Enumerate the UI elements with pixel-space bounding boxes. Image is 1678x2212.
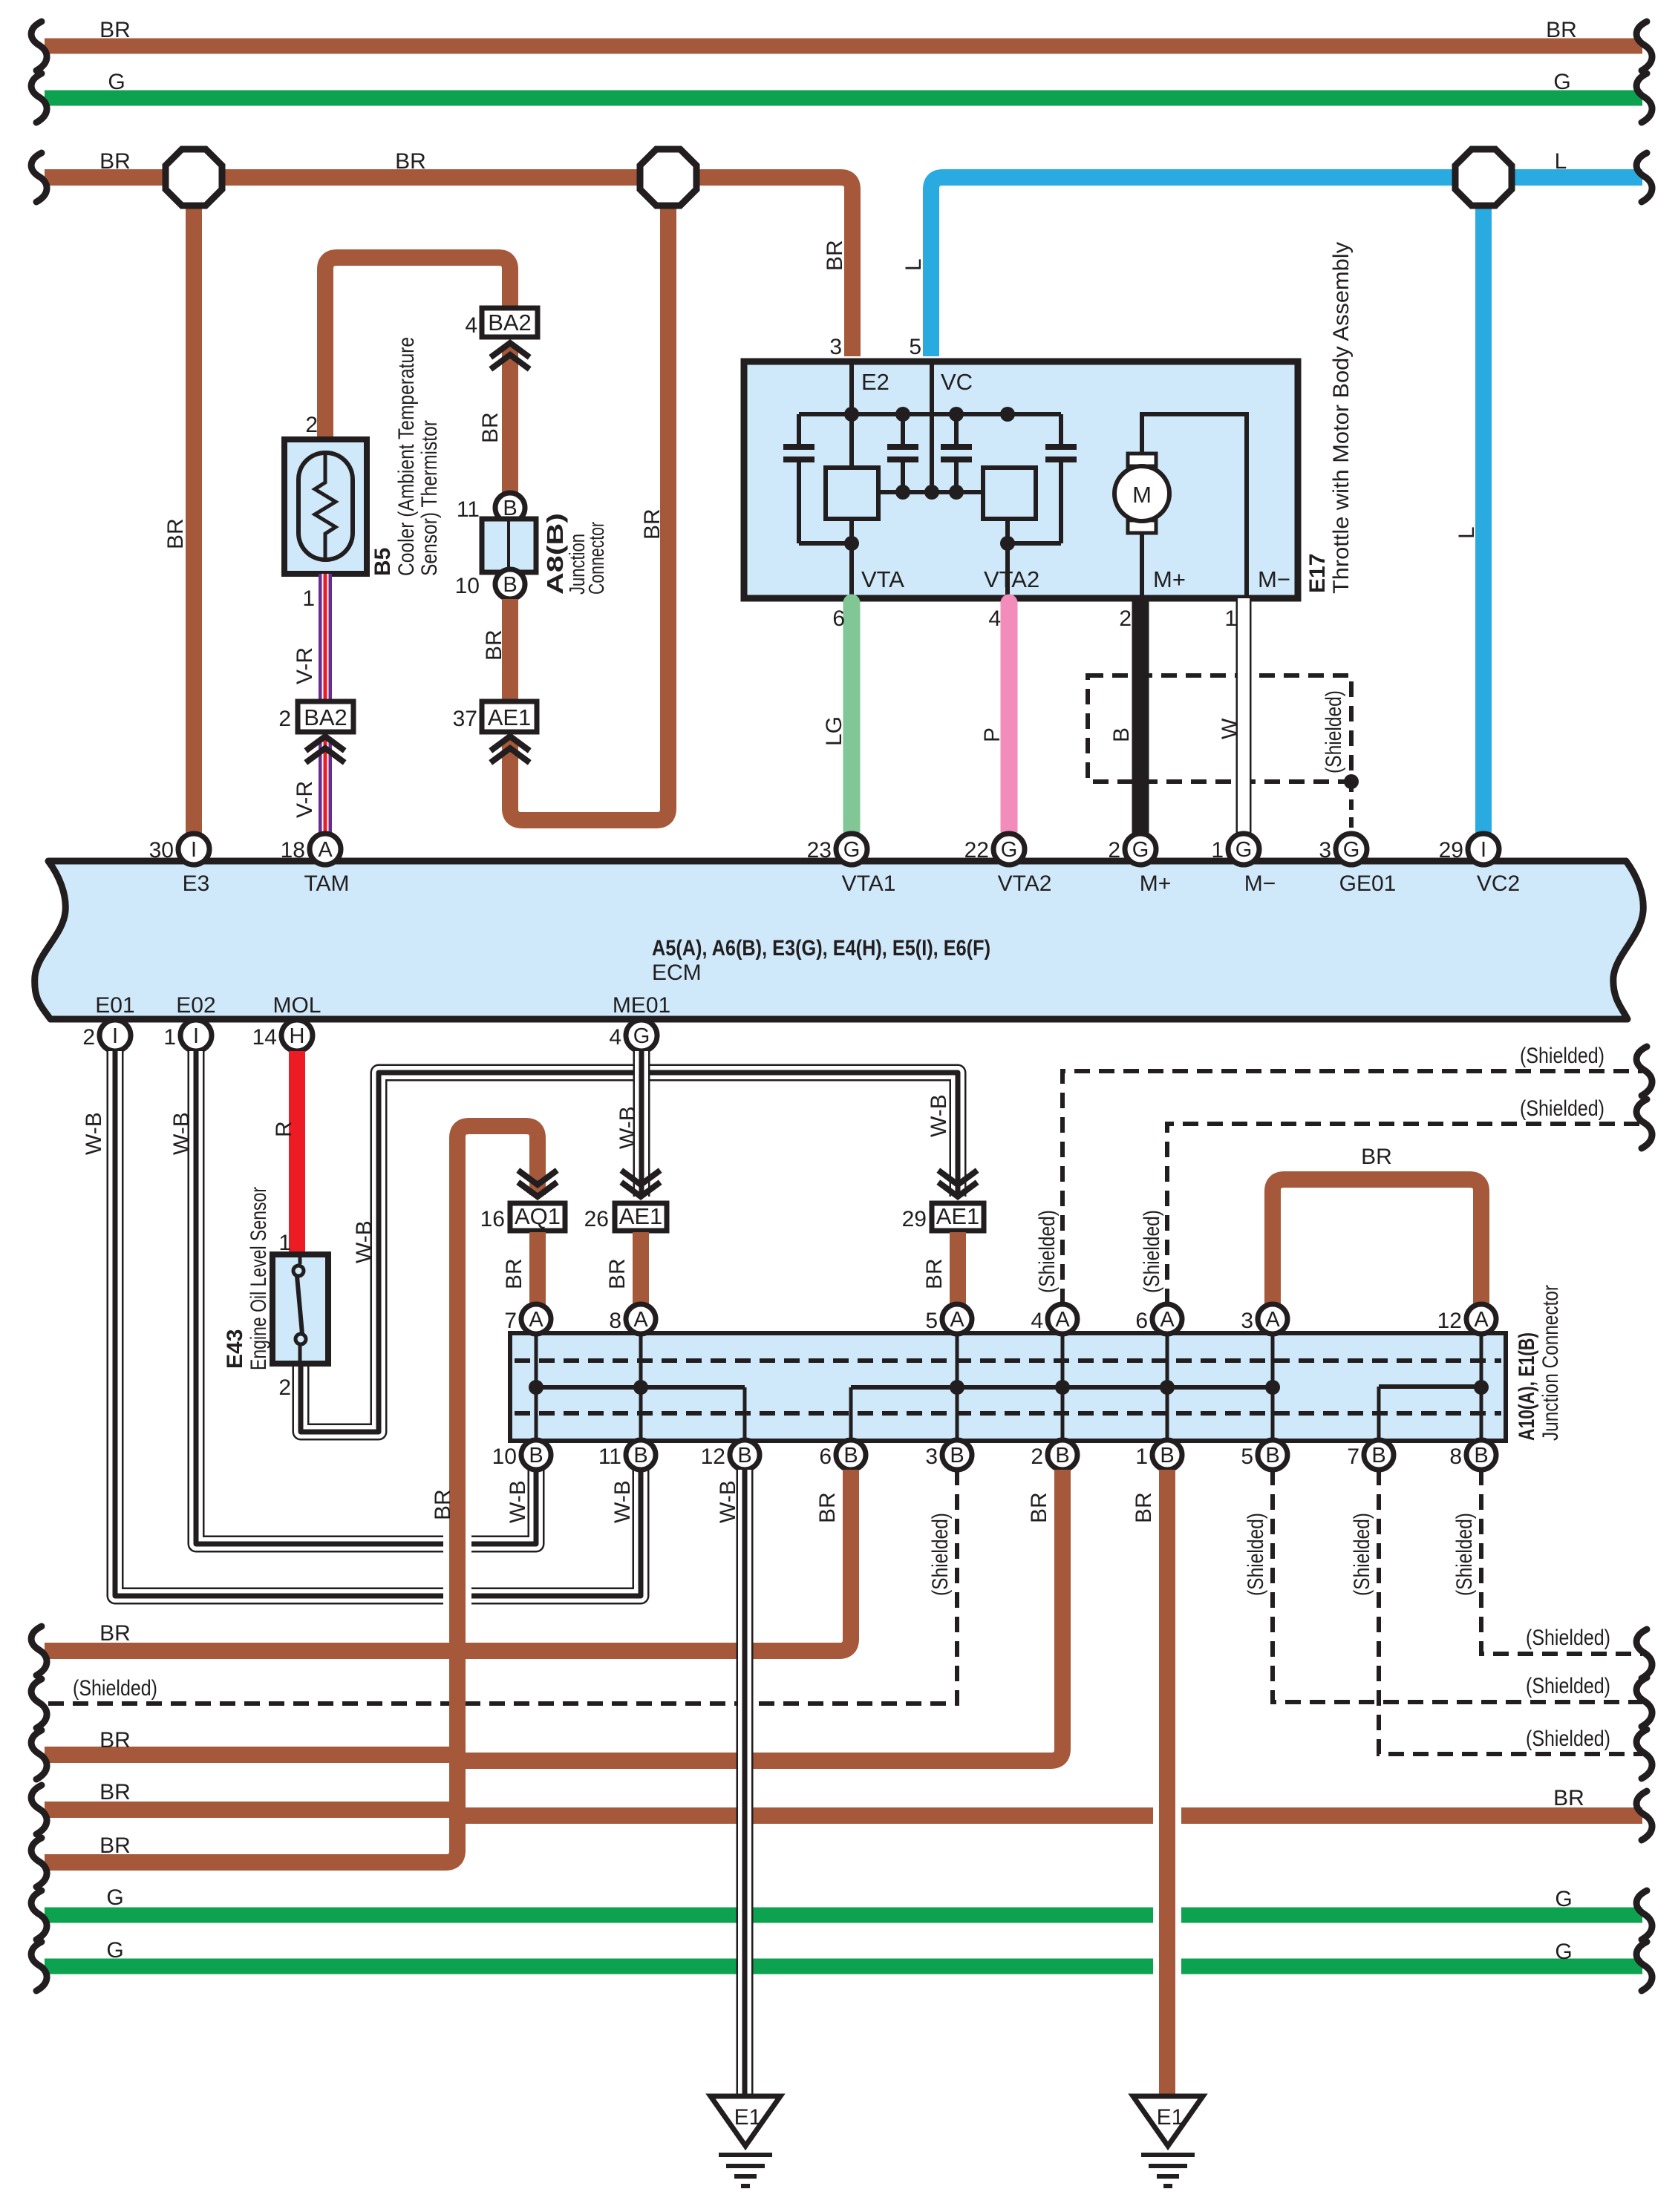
throttle body E17 box	[744, 361, 1298, 598]
pin 12B circle	[730, 1440, 760, 1470]
IC box U1 (VTA)	[826, 468, 878, 519]
wire break top BR right	[1636, 22, 1652, 71]
svg-text:B: B	[1474, 1444, 1488, 1467]
svg-text:L: L	[1555, 149, 1567, 174]
ECM pin 22 VTA2 circle	[993, 834, 1025, 865]
svg-text:(Shielded): (Shielded)	[1140, 1210, 1164, 1293]
wire C1 bottom link	[799, 541, 852, 546]
svg-text:B: B	[1265, 1444, 1279, 1467]
bar column 12B	[743, 1387, 747, 1439]
svg-text:A: A	[633, 1308, 648, 1332]
svg-text:BR: BR	[605, 1258, 630, 1289]
wire break bus3 left	[31, 153, 47, 202]
svg-text:A: A	[950, 1308, 964, 1332]
node bus dot x1289	[950, 1380, 964, 1395]
svg-text:BR: BR	[99, 1780, 131, 1804]
bar column x1995	[1480, 1335, 1483, 1439]
oil level sensor E43 box	[272, 1254, 328, 1364]
connector AE1 pin 37 box	[482, 701, 537, 732]
svg-text:B: B	[529, 1444, 543, 1467]
ECM pin 23 VTA1 circle	[836, 834, 867, 865]
pin 1B circle	[1152, 1440, 1182, 1470]
svg-text:W-B: W-B	[352, 1220, 376, 1263]
wire break bottom-left y2364	[31, 1730, 47, 1779]
wire L bus from throttle VC	[931, 177, 1642, 356]
node dot vta2	[1000, 536, 1015, 551]
svg-text:BR: BR	[922, 1258, 947, 1289]
svg-text:G: G	[633, 1024, 650, 1048]
svg-text:ECM: ECM	[652, 961, 702, 985]
chevron AQ1-16	[520, 1172, 555, 1185]
svg-text:5: 5	[925, 1309, 938, 1333]
svg-text:E43: E43	[223, 1329, 247, 1369]
svg-text:AE1: AE1	[936, 1203, 980, 1229]
node bus dot x722	[529, 1380, 543, 1395]
bar bus segment 2	[851, 1385, 1273, 1390]
wire internal mid bus	[878, 490, 983, 494]
pin 12A circle	[1466, 1304, 1496, 1334]
motor M1 brushes	[1128, 454, 1156, 466]
svg-text:22: 22	[964, 838, 989, 863]
svg-text:5: 5	[909, 335, 921, 359]
svg-text:Cooler (Ambient Temperature: Cooler (Ambient Temperature	[394, 337, 419, 576]
svg-text:AQ1: AQ1	[515, 1203, 561, 1229]
node junction J2 (octagon) overlay	[640, 149, 696, 206]
svg-text:AE1: AE1	[619, 1203, 663, 1229]
wire BR 1B to ground E1	[1159, 1470, 1175, 2096]
svg-text:B: B	[1160, 1444, 1174, 1467]
svg-text:B: B	[1109, 727, 1134, 742]
svg-text:(Shielded): (Shielded)	[1526, 1674, 1610, 1698]
svg-text:M: M	[1132, 482, 1152, 508]
svg-text:W-B: W-B	[506, 1480, 530, 1523]
node bus dot x1714	[1265, 1380, 1280, 1395]
pin 8A circle	[626, 1304, 656, 1334]
ECM pin 18 TAM circle	[310, 834, 341, 865]
wire BR drop to ECM E3	[186, 177, 202, 839]
wire BR bus5 left	[45, 1747, 459, 1763]
svg-text:6: 6	[832, 606, 845, 631]
wire BR bus6 right	[456, 1807, 1642, 1824]
svg-text:B: B	[1371, 1444, 1385, 1467]
svg-text:E01: E01	[95, 993, 134, 1018]
wire BR (A8 pin10 to AE1-37)	[502, 599, 518, 701]
svg-text:A: A	[529, 1308, 543, 1332]
svg-text:3: 3	[1241, 1309, 1253, 1333]
pin 11 B circle	[495, 493, 525, 523]
motor M1 bottom line	[1140, 532, 1144, 598]
wire break bottom-left y2509	[31, 1838, 47, 1887]
svg-text:Sensor) Thermistor: Sensor) Thermistor	[417, 420, 442, 576]
wire shielded 5B to right	[1273, 1470, 1642, 1702]
svg-text:I: I	[112, 1024, 118, 1048]
svg-text:VTA2: VTA2	[984, 566, 1039, 592]
IC box U2 (VTA2)	[983, 468, 1036, 519]
ECM box	[35, 861, 1644, 1019]
svg-text:1: 1	[302, 586, 315, 611]
svg-text:Engine Oil Level Sensor: Engine Oil Level Sensor	[247, 1187, 271, 1370]
svg-text:37: 37	[453, 707, 477, 731]
svg-text:M+: M+	[1153, 566, 1186, 592]
svg-text:B5: B5	[370, 548, 395, 576]
wire W-B E01 to 11B	[115, 1051, 641, 1596]
node shield dot	[1344, 774, 1359, 789]
bar column x722	[535, 1335, 538, 1439]
svg-text:E2: E2	[861, 369, 889, 395]
svg-text:BR: BR	[502, 1258, 526, 1289]
node bus dot x1572	[1160, 1380, 1175, 1395]
wire BR AE1-26 to 8A	[633, 1232, 649, 1306]
svg-text:BR: BR	[1027, 1492, 1051, 1523]
wire LG (VTA1)	[843, 603, 861, 831]
ECM pin 2 E01 circle	[99, 1020, 131, 1051]
svg-text:Connector: Connector	[585, 522, 609, 595]
svg-text:(Shielded): (Shielded)	[1322, 690, 1346, 773]
node junction J1 (octagon)	[166, 149, 222, 206]
svg-text:AE1: AE1	[488, 704, 532, 730]
svg-text:4: 4	[609, 1025, 621, 1050]
wire E2 internal	[849, 364, 854, 468]
bar column x1431	[1061, 1335, 1065, 1439]
svg-text:29: 29	[902, 1207, 927, 1231]
svg-text:Junction Connector: Junction Connector	[1538, 1285, 1563, 1441]
svg-text:18: 18	[281, 838, 305, 863]
wire BR AE1-29 to 5A	[950, 1232, 966, 1306]
wire BR bus to throttle E2	[45, 177, 852, 356]
svg-text:E1: E1	[1157, 2105, 1184, 2130]
wire break top G left	[31, 73, 47, 122]
wire shielded 3B to left	[45, 1470, 957, 1704]
junction connector A8(B) box	[482, 519, 536, 572]
svg-text:30: 30	[149, 838, 174, 863]
wire BR (AE1-37 loop to J2)	[510, 177, 668, 820]
svg-text:(Shielded): (Shielded)	[1350, 1513, 1374, 1596]
wire break bottom-left y2224	[31, 1626, 47, 1675]
svg-text:6: 6	[819, 1444, 832, 1469]
chevron AE1-37	[493, 736, 527, 749]
node bus dot x863	[633, 1380, 648, 1395]
svg-text:7: 7	[1347, 1444, 1359, 1469]
svg-text:G: G	[108, 70, 125, 94]
svg-text:VTA: VTA	[861, 566, 904, 592]
svg-text:12: 12	[1437, 1309, 1462, 1333]
svg-text:TAM: TAM	[304, 871, 349, 896]
wire BR main vertical to AQ1	[45, 1126, 538, 1862]
svg-text:BR: BR	[99, 1833, 131, 1858]
svg-text:1: 1	[278, 1231, 291, 1255]
wire VC internal	[930, 364, 934, 492]
wire P (VTA2)	[1001, 603, 1018, 831]
svg-text:(Shielded): (Shielded)	[73, 1676, 157, 1701]
svg-text:2: 2	[1119, 606, 1132, 631]
svg-text:LG: LG	[822, 716, 846, 746]
ground E1 (right)	[1133, 2096, 1203, 2146]
svg-text:G: G	[1001, 838, 1018, 862]
node dot c3-mid	[949, 485, 964, 500]
bar column x1289	[956, 1335, 959, 1439]
svg-text:W-B: W-B	[610, 1480, 635, 1523]
svg-text:12: 12	[701, 1444, 725, 1469]
svg-text:BA2: BA2	[488, 310, 532, 336]
svg-text:A10(A), E1(B): A10(A), E1(B)	[1515, 1332, 1539, 1441]
wire G bus (top)	[45, 91, 1642, 106]
svg-text:H: H	[290, 1024, 305, 1048]
svg-text:G: G	[1132, 838, 1149, 862]
ECM pin 14 MOL circle	[281, 1020, 313, 1051]
svg-text:1: 1	[1211, 838, 1224, 863]
wire G bus7	[45, 1908, 1642, 1923]
ECM pin 4 ME01 circle	[626, 1020, 657, 1051]
junction connector A10/E1 bar	[510, 1333, 1506, 1441]
ECM pin 2 M+ circle	[1125, 834, 1156, 865]
svg-text:4: 4	[1031, 1309, 1043, 1333]
svg-text:VC2: VC2	[1477, 871, 1520, 896]
wire break top BR left	[31, 22, 47, 71]
svg-text:VTA1: VTA1	[842, 871, 896, 896]
svg-text:B: B	[1055, 1444, 1069, 1467]
wire break bus3 right	[1636, 153, 1652, 202]
chevron BA2-4	[493, 343, 527, 356]
ECM pin 3 GE01 circle	[1336, 834, 1367, 865]
wire VTA internal	[849, 519, 854, 598]
svg-text:W-B: W-B	[169, 1112, 194, 1155]
svg-text:G: G	[1553, 70, 1570, 94]
svg-text:P: P	[980, 727, 1005, 742]
pin 10B circle	[521, 1440, 551, 1470]
svg-text:BR: BR	[815, 1492, 840, 1523]
svg-text:W-B: W-B	[927, 1094, 951, 1137]
wire BR (BA2-4 to A8 pin11)	[502, 346, 518, 494]
svg-text:2: 2	[305, 413, 318, 437]
svg-text:I: I	[1481, 838, 1486, 862]
motor M1 top line	[1142, 414, 1247, 598]
svg-text:M−: M−	[1258, 566, 1290, 592]
svg-text:VC: VC	[941, 369, 973, 395]
wire break bottom-left y2295	[31, 1679, 47, 1728]
node junction J2 (octagon)	[640, 149, 696, 206]
svg-text:BR: BR	[1553, 1786, 1584, 1810]
svg-text:1: 1	[1224, 606, 1237, 631]
wire W-B E02 to 10B	[196, 1051, 536, 1544]
wire V-R (B5 to BA2)	[319, 574, 332, 701]
node dot c2-mid	[895, 485, 910, 500]
switch SW1 in E43	[298, 1257, 302, 1361]
svg-text:(Shielded): (Shielded)	[1244, 1513, 1268, 1596]
chevron AE1-37 overlay	[493, 736, 527, 749]
svg-text:W-B: W-B	[82, 1112, 106, 1155]
svg-text:VTA2: VTA2	[998, 871, 1052, 896]
svg-text:7: 7	[504, 1309, 517, 1333]
motor M1 circle	[1114, 466, 1169, 521]
svg-text:BR: BR	[99, 18, 131, 42]
wire C4 bottom link	[1008, 541, 1061, 546]
bar dashed line upper	[515, 1358, 1501, 1363]
pin 2B circle	[1048, 1440, 1077, 1470]
svg-text:(Shielded): (Shielded)	[1526, 1626, 1610, 1650]
svg-text:A8(B): A8(B)	[542, 513, 568, 595]
wire break shielded 6A	[1636, 1099, 1652, 1148]
svg-text:A5(A), A6(B), E3(G), E4(H), E5: A5(A), A6(B), E3(G), E4(H), E5(I), E6(F)	[652, 936, 990, 961]
connector AE1 pin 29 box	[932, 1203, 984, 1231]
svg-text:BR: BR	[99, 1728, 131, 1753]
svg-text:10: 10	[492, 1444, 517, 1469]
svg-text:I: I	[193, 1024, 199, 1048]
pin 10 B circle	[495, 569, 525, 599]
bar column x1572	[1166, 1335, 1169, 1439]
node dot b2-bus	[1000, 407, 1015, 422]
svg-text:G: G	[1235, 838, 1253, 862]
wire VTA2 internal	[1005, 519, 1010, 598]
svg-text:B: B	[633, 1444, 647, 1467]
bar bus segment 1	[536, 1385, 745, 1390]
node dot c3-bus	[949, 407, 964, 422]
svg-text:8: 8	[609, 1309, 621, 1333]
svg-text:Throttle with Motor Body Assem: Throttle with Motor Body Assembly	[1329, 242, 1354, 594]
node dot E2-bus	[844, 407, 859, 422]
wire break bottom-left y2649	[31, 1942, 47, 1991]
svg-text:A: A	[1265, 1308, 1280, 1332]
chevron BA2-2	[308, 736, 342, 749]
svg-text:E1: E1	[734, 2105, 762, 2130]
wire break bottom-right y2446	[1636, 1791, 1652, 1840]
wire V-R (chevron to TAM)	[319, 739, 332, 839]
svg-text:(Shielded): (Shielded)	[1520, 1044, 1604, 1068]
svg-text:23: 23	[807, 838, 832, 863]
thermistor B5 box	[284, 439, 367, 574]
svg-text:B: B	[503, 573, 517, 597]
wire R (MOL to E43)	[289, 1051, 305, 1256]
wire BR bus4 to 6B	[45, 1470, 851, 1651]
svg-text:3: 3	[1319, 838, 1331, 863]
svg-text:5: 5	[1241, 1444, 1253, 1469]
svg-text:BR: BR	[823, 240, 847, 271]
ECM pin 29 VC2 circle	[1468, 834, 1499, 865]
svg-text:6: 6	[1135, 1309, 1148, 1333]
capacitor C4	[1059, 414, 1063, 543]
svg-text:L: L	[1455, 526, 1479, 539]
pin 5A circle	[942, 1304, 972, 1334]
svg-text:M−: M−	[1244, 871, 1276, 896]
bar column x1714	[1271, 1335, 1275, 1439]
node dot vc-mid	[924, 485, 939, 500]
wire break bottom-right y2228	[1636, 1629, 1652, 1678]
wire internal top bus	[799, 412, 1061, 416]
connector AE1 pin 26 box	[615, 1203, 667, 1231]
svg-text:M+: M+	[1140, 871, 1172, 896]
wire BR hat 3A to 12A	[1273, 1179, 1481, 1306]
svg-text:10: 10	[455, 574, 480, 598]
svg-text:W: W	[1218, 718, 1242, 739]
pin 3B circle	[942, 1440, 972, 1470]
ECM pin 1 M&#8722; circle	[1228, 834, 1259, 865]
bar column x863	[639, 1335, 643, 1439]
capacitor C3	[954, 414, 959, 492]
svg-text:E02: E02	[176, 993, 215, 1018]
svg-text:3: 3	[925, 1444, 938, 1469]
svg-text:BR: BR	[99, 149, 131, 174]
svg-text:W-B: W-B	[616, 1106, 640, 1149]
svg-text:BR: BR	[478, 412, 503, 443]
svg-text:4: 4	[465, 313, 477, 338]
chevron AQ1-16 overlay	[520, 1172, 555, 1185]
wire BR power bus (top)	[45, 39, 1642, 54]
svg-text:GE01: GE01	[1339, 871, 1397, 896]
svg-text:(Shielded): (Shielded)	[1035, 1210, 1060, 1293]
svg-text:(Shielded): (Shielded)	[1526, 1727, 1610, 1751]
bar bus segment 3	[1379, 1384, 1481, 1389]
svg-text:BR: BR	[1361, 1145, 1392, 1169]
svg-text:16: 16	[480, 1207, 505, 1231]
svg-text:G: G	[843, 838, 861, 862]
svg-text:G: G	[106, 1885, 123, 1910]
svg-text:2: 2	[278, 707, 291, 731]
wire shielded 6A	[1167, 1124, 1642, 1304]
wire G bus8	[45, 1959, 1642, 1974]
crossing halo (BR over W-B)	[443, 1528, 471, 1612]
svg-text:G: G	[106, 1938, 123, 1963]
crossing halo (1B over buses)	[1153, 1780, 1181, 2096]
node dot vta	[844, 536, 859, 551]
pin 7A circle	[521, 1304, 551, 1334]
wire shielded 7B to right	[1379, 1470, 1642, 1754]
svg-text:BR: BR	[395, 149, 426, 174]
svg-text:BR: BR	[1132, 1492, 1156, 1523]
wire break bottom-right y2649	[1636, 1942, 1652, 1991]
pin 8B circle	[1466, 1440, 1496, 1470]
svg-text:2: 2	[278, 1375, 291, 1400]
connector BA2 pin 2 box	[298, 701, 353, 732]
svg-text:(Shielded): (Shielded)	[1520, 1096, 1604, 1121]
svg-text:26: 26	[584, 1207, 609, 1231]
wire W-B 12B to ground E1	[737, 1470, 754, 2096]
pin 4A circle	[1048, 1304, 1077, 1334]
pin 5B circle	[1258, 1440, 1287, 1470]
wire W-B ME01 to AE1-26	[633, 1051, 650, 1197]
ground E1 (left)	[711, 2096, 780, 2146]
wire BR thermistor feed	[325, 258, 510, 445]
svg-text:B: B	[950, 1444, 964, 1467]
chevron AE1-26	[624, 1172, 658, 1185]
capacitor C1	[797, 414, 801, 543]
wire W (M-)	[1236, 598, 1252, 839]
pin 6A circle	[1152, 1304, 1182, 1334]
svg-text:2: 2	[1031, 1444, 1043, 1469]
pin 11B circle	[626, 1440, 656, 1470]
wire shield drain to GE01	[1349, 782, 1354, 834]
svg-text:ME01: ME01	[613, 993, 670, 1018]
connector AQ1 pin 16 box	[510, 1203, 565, 1231]
svg-text:MOL: MOL	[272, 993, 321, 1018]
svg-text:11: 11	[598, 1444, 621, 1469]
capacitor C2	[901, 414, 905, 492]
svg-text:L: L	[901, 258, 926, 271]
svg-text:BR: BR	[163, 518, 188, 549]
wire break bottom-right y2293	[1636, 1678, 1652, 1727]
svg-text:4: 4	[988, 606, 1001, 631]
thermistor B5 resistor zigzag	[315, 453, 336, 560]
thermistor B5 stadium	[298, 453, 353, 560]
svg-text:B: B	[737, 1444, 751, 1467]
svg-text:BR: BR	[1546, 18, 1577, 42]
svg-text:B: B	[843, 1444, 858, 1467]
connector BA2 pin 4 box	[482, 308, 538, 337]
svg-text:G: G	[1555, 1887, 1572, 1911]
wire L drop to ECM VC2	[1475, 177, 1492, 839]
pin 7B circle	[1364, 1440, 1394, 1470]
node dot c2-bus	[895, 407, 910, 422]
wire shielded 4A	[1062, 1071, 1642, 1304]
svg-text:(Shielded): (Shielded)	[1452, 1513, 1477, 1596]
